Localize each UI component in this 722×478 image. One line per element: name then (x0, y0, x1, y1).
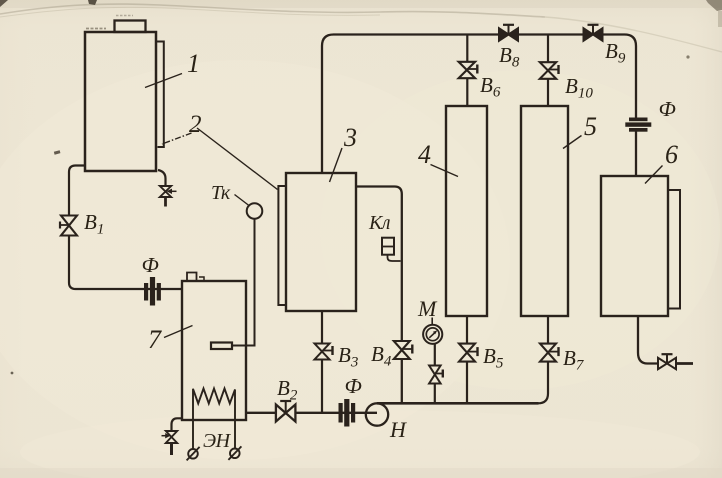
svg-text:5: 5 (584, 112, 597, 141)
svg-text:4: 4 (418, 140, 431, 169)
svg-text:ЭН: ЭН (203, 430, 232, 452)
svg-text:М: М (417, 296, 438, 321)
svg-text:Н: Н (389, 417, 407, 442)
svg-text:Кл: Кл (368, 212, 391, 234)
svg-text:Тк: Тк (211, 182, 231, 204)
svg-text:1: 1 (187, 49, 200, 78)
svg-text:Ф: Ф (345, 374, 362, 398)
svg-text:Ф: Ф (659, 97, 676, 121)
svg-text:Ф: Ф (142, 253, 159, 277)
svg-text:6: 6 (665, 140, 678, 169)
svg-text:2: 2 (189, 111, 202, 138)
svg-text:3: 3 (343, 123, 357, 152)
svg-text:7: 7 (148, 325, 162, 354)
